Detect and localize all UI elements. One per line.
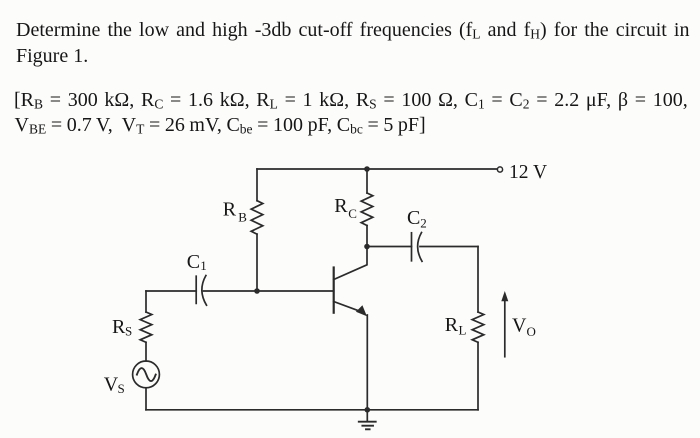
svg-text:S: S <box>125 324 132 339</box>
svg-text:C: C <box>407 207 420 229</box>
svg-text:B: B <box>238 210 247 225</box>
svg-text:R: R <box>445 314 459 336</box>
svg-text:R: R <box>223 199 237 221</box>
svg-text:1: 1 <box>200 258 207 273</box>
svg-text:V: V <box>512 315 527 337</box>
svg-text:C: C <box>187 251 200 273</box>
svg-text:S: S <box>118 381 125 396</box>
svg-text:12 V: 12 V <box>509 162 547 183</box>
svg-text:R: R <box>334 195 348 217</box>
svg-text:C: C <box>348 206 357 221</box>
svg-text:O: O <box>527 324 536 339</box>
svg-text:R: R <box>112 316 126 338</box>
svg-text:L: L <box>459 323 467 338</box>
svg-text:2: 2 <box>420 216 427 231</box>
